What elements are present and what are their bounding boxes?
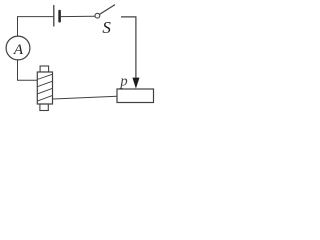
svg-text:A: A (13, 42, 24, 58)
svg-text:S: S (102, 18, 111, 37)
svg-text:p: p (119, 74, 127, 90)
